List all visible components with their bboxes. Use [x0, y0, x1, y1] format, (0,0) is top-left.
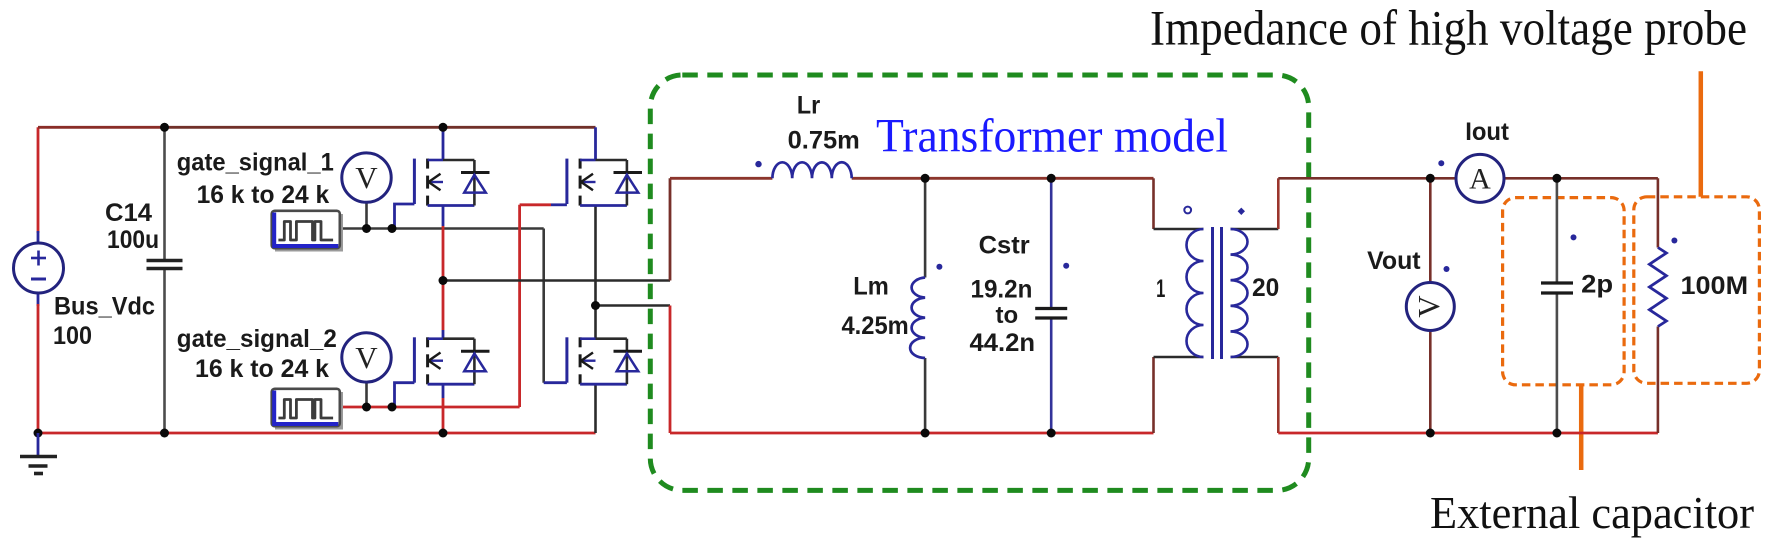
wire Cstr lower lead: [1050, 319, 1053, 434]
wire C14 upper lead: [163, 127, 166, 260]
junction 2p top: [1552, 174, 1561, 183]
svg-text:19.2n: 19.2n: [971, 275, 1033, 303]
transistor Q3: [414, 337, 489, 384]
svg-text:gate_signal_2: gate_signal_2: [177, 325, 337, 353]
polarity dot 2p: [1571, 234, 1577, 240]
wire bottom rail right: [1278, 432, 1658, 435]
wire bottom rail bridge: [38, 432, 596, 435]
capacitor Cstr: [1035, 309, 1067, 319]
junction ground rail: [34, 429, 43, 438]
transformer T1: [1184, 207, 1247, 359]
wire node B to Q4 drain: [594, 306, 597, 339]
wire top rail main segment: [165, 126, 596, 129]
wire source bottom stub: [37, 293, 40, 307]
capacitor C14: [147, 261, 183, 269]
svg-text:4.25m: 4.25m: [842, 312, 909, 340]
wire Lr to primary: [852, 177, 1154, 180]
svg-text:to: to: [996, 302, 1019, 329]
wire V2 probe lead: [365, 382, 368, 408]
wire primary top step: [1152, 178, 1155, 229]
wire gating1 output: [340, 227, 544, 230]
svg-text:Transformer model: Transformer model: [876, 110, 1228, 163]
wire Q4 source to rail end: [594, 384, 597, 433]
svg-text:gate_signal_1: gate_signal_1: [177, 149, 334, 177]
junction gate2 branch: [388, 403, 397, 412]
junction V2 probe tap: [362, 403, 371, 412]
wire source top stub: [37, 231, 40, 244]
svg-text:Bus_Vdc: Bus_Vdc: [54, 293, 155, 321]
junction Lm top: [921, 174, 930, 183]
wire Cstr upper lead: [1050, 178, 1053, 307]
wire Vout branch: [1429, 178, 1432, 433]
wire Q1 source to node A: [442, 206, 445, 227]
wire C14 lower lead: [163, 269, 166, 434]
wire secondary bottom step: [1231, 356, 1279, 359]
svg-text:16 k to 24 k: 16 k to 24 k: [197, 181, 330, 209]
wire Q2 drain: [594, 127, 597, 160]
polarity dot Lm: [936, 264, 942, 270]
callout line to probe box: [1699, 71, 1704, 197]
svg-text:Iout: Iout: [1465, 118, 1509, 146]
probe impedance dashed orange box: [1634, 197, 1760, 383]
wire Lm upper lead: [924, 178, 927, 277]
wire gate1 to Q4 vertical: [542, 229, 545, 383]
wire Q1 gate riser: [395, 204, 415, 229]
gating block G2: [272, 389, 343, 430]
wire secondary top step: [1231, 228, 1279, 231]
dc source Bus_Vdc: [14, 243, 64, 293]
node B: [591, 301, 600, 310]
svg-text:16 k to 24 k: 16 k to 24 k: [195, 355, 329, 383]
capacitor 2p plates: [1541, 283, 1573, 293]
svg-text:Vout: Vout: [1367, 247, 1421, 275]
wire gate2 to Q2 vertical: [518, 205, 521, 407]
voltmeter Vout: [1406, 283, 1454, 331]
transformer model dashed green box: [650, 75, 1308, 490]
wire gate2 to Q2 blue end: [551, 203, 567, 206]
wire transformer box bottom: [670, 432, 1154, 435]
voltmeter V1: [342, 153, 391, 202]
svg-text:100: 100: [53, 322, 92, 350]
svg-text:20: 20: [1252, 274, 1279, 302]
callout line to external capacitor: [1579, 385, 1584, 470]
wire Q1 drain: [442, 127, 445, 160]
junction Lm bottom: [921, 429, 930, 438]
svg-text:Cstr: Cstr: [979, 231, 1030, 259]
inductor Lm: [910, 278, 925, 359]
wire secondary top out: [1278, 177, 1658, 180]
wire node A to Q3 drain: [442, 330, 445, 339]
junction Cstr top: [1047, 174, 1056, 183]
external capacitor dashed orange box: [1503, 198, 1625, 385]
ground: [20, 433, 57, 474]
gating block G1: [272, 211, 343, 252]
wire Lm lower lead: [924, 358, 927, 433]
wire Q3 source to bottom rail: [442, 384, 445, 398]
svg-text:1: 1: [1156, 275, 1165, 303]
svg-text:Lm: Lm: [853, 273, 889, 301]
wire node B dropper: [669, 306, 672, 434]
junction C14 top: [160, 123, 169, 132]
svg-text:V: V: [1411, 295, 1446, 318]
junction Vout top: [1426, 174, 1435, 183]
wire 2p lower lead: [1556, 293, 1559, 433]
wire 100M bottom lead: [1657, 327, 1660, 434]
junction Q1 drain rail: [439, 123, 448, 132]
resistor 100M: [1649, 248, 1666, 327]
wire Q2 source to node B: [594, 206, 597, 306]
svg-text:A: A: [1469, 163, 1491, 196]
junction V1 probe tap: [362, 224, 371, 233]
wire gating2 output: [340, 406, 520, 409]
polarity dot 100M: [1671, 238, 1677, 244]
svg-text:100u: 100u: [107, 226, 159, 254]
junction Q3 source rail: [439, 429, 448, 438]
voltmeter V2: [342, 333, 391, 382]
wire node A riser: [669, 178, 672, 280]
wire 100M top lead: [1657, 178, 1660, 247]
wire V1 probe lead: [365, 203, 368, 229]
wire Q3 gate riser: [395, 383, 415, 407]
polarity dot Iout: [1438, 160, 1444, 166]
junction Vout bottom: [1426, 429, 1435, 438]
ammeter Iout: [1456, 154, 1504, 202]
transistor Q4: [567, 337, 642, 384]
svg-text:V: V: [355, 160, 378, 195]
junction 2p bottom: [1552, 429, 1561, 438]
wire node A horizontal: [443, 279, 670, 282]
inductor Lr: [772, 162, 851, 178]
wire top rail left segment: [37, 127, 40, 233]
svg-text:0.75m: 0.75m: [788, 126, 860, 154]
wire primary bottom step: [1152, 357, 1155, 433]
svg-text:100M: 100M: [1681, 272, 1749, 300]
svg-text:2p: 2p: [1581, 271, 1613, 299]
junction gate1 branch: [388, 224, 397, 233]
wire transformer box top left: [670, 177, 772, 180]
junction Cstr bottom: [1047, 429, 1056, 438]
svg-text:V: V: [355, 340, 378, 375]
svg-text:Impedance of high voltage prob: Impedance of high voltage probe: [1150, 0, 1747, 56]
polarity dot Lr: [755, 161, 761, 167]
wire source to bottom rail: [37, 304, 40, 433]
node A: [439, 276, 448, 285]
transistor Q2: [567, 159, 642, 206]
svg-text:44.2n: 44.2n: [970, 329, 1036, 357]
transistor Q1: [414, 159, 489, 206]
svg-text:C14: C14: [105, 199, 152, 227]
wire gate2 to Q2 horizontal: [520, 203, 551, 206]
wire gate1 to Q4 horizontal: [544, 381, 567, 384]
svg-text:External capacitor: External capacitor: [1430, 488, 1754, 538]
wire node B horizontal: [596, 304, 671, 307]
wire 2p upper lead: [1556, 178, 1559, 283]
polarity dot Vout: [1444, 266, 1450, 272]
svg-text:Lr: Lr: [797, 91, 821, 119]
polarity dot Cstr: [1063, 263, 1069, 269]
junction C14 bottom: [160, 429, 169, 438]
